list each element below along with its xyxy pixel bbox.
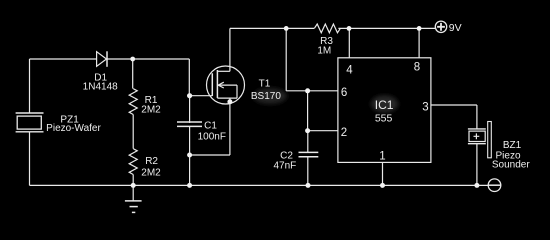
- svg-text:2M2: 2M2: [141, 105, 161, 116]
- svg-text:1: 1: [379, 151, 385, 163]
- svg-text:1N4148: 1N4148: [83, 82, 118, 93]
- svg-text:2: 2: [341, 127, 347, 139]
- svg-text:BS170: BS170: [251, 91, 281, 102]
- svg-text:6: 6: [341, 87, 347, 99]
- svg-text:8: 8: [414, 62, 420, 74]
- svg-text:Sounder: Sounder: [492, 160, 530, 171]
- svg-text:2M2: 2M2: [141, 168, 161, 179]
- svg-text:3: 3: [422, 102, 428, 114]
- svg-text:1M: 1M: [317, 46, 331, 57]
- svg-text:T1: T1: [259, 78, 271, 89]
- svg-text:555: 555: [375, 113, 393, 125]
- svg-text:47nF: 47nF: [274, 160, 297, 171]
- svg-text:100nF: 100nF: [198, 132, 226, 143]
- svg-text:R2: R2: [145, 156, 158, 167]
- svg-text:9V: 9V: [449, 22, 462, 34]
- svg-text:4: 4: [346, 65, 353, 77]
- svg-text:Piezo-Wafer: Piezo-Wafer: [46, 123, 101, 134]
- svg-text:IC1: IC1: [375, 98, 394, 112]
- svg-text:C1: C1: [204, 120, 217, 131]
